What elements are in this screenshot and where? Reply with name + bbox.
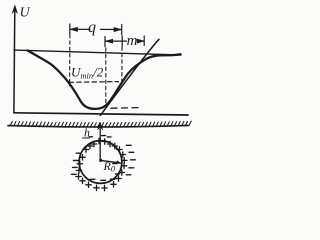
m dimension line xyxy=(105,36,144,47)
dashed vertical V3 xyxy=(121,47,123,81)
radius line R0 xyxy=(101,160,120,163)
dashed vertical V1 xyxy=(69,35,71,87)
plus marks on cylinder rim xyxy=(76,138,127,190)
ground line xyxy=(8,121,191,127)
buried cable circle xyxy=(79,141,122,184)
half-depth dashed level xyxy=(69,81,119,84)
dashed vertical V2 xyxy=(105,48,107,104)
U axis xyxy=(12,5,17,113)
center dot xyxy=(99,159,102,162)
svg-text:U: U xyxy=(20,5,31,20)
h label xyxy=(83,125,91,139)
minimum level dashed xyxy=(111,107,141,110)
svg-text:m: m xyxy=(127,33,138,49)
zero level line xyxy=(14,50,181,55)
bottom line xyxy=(14,113,188,115)
q dimension line xyxy=(70,24,122,35)
minus marks (induced charges) xyxy=(72,136,136,181)
h arrow xyxy=(98,123,103,161)
svg-text:q: q xyxy=(88,19,96,36)
potential curve xyxy=(28,50,181,109)
tangent line xyxy=(100,39,159,115)
